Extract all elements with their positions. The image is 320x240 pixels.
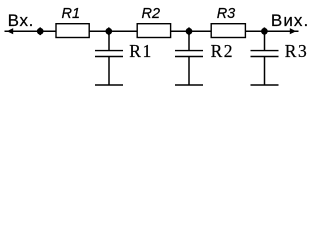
- resistor R1 (series box): [56, 24, 89, 38]
- svg-text:R2: R2: [142, 6, 161, 22]
- svg-text:Вих.: Вих.: [271, 11, 309, 30]
- terminal bar branch 1: [95, 84, 123, 86]
- svg-text:R1: R1: [129, 41, 152, 61]
- terminal bar branch 3: [251, 84, 279, 86]
- wire input segment: [5, 30, 56, 32]
- node B (junction dot 2): [105, 28, 112, 35]
- svg-text:R2: R2: [211, 41, 234, 61]
- wire capacitor branch 3 bottom: [264, 57, 266, 86]
- svg-text:R1: R1: [62, 6, 81, 22]
- capacitor R3 bottom plate: [251, 56, 279, 58]
- wire capacitor branch 1 top: [108, 31, 110, 51]
- capacitor R2 top plate: [175, 50, 203, 52]
- capacitor R1 top plate: [95, 50, 123, 52]
- resistor R2 (series box): [137, 24, 170, 38]
- svg-text:R3: R3: [285, 41, 308, 61]
- svg-text:Вх.: Вх.: [8, 11, 34, 30]
- wire R2 to node C: [171, 30, 211, 32]
- node C (junction dot 3): [186, 28, 193, 35]
- wire capacitor branch 1 bottom: [108, 57, 110, 86]
- resistor R3 (series box): [211, 24, 245, 38]
- wire R3 to output: [245, 30, 298, 32]
- wire R1 to node B: [89, 30, 137, 32]
- wire capacitor branch 3 top: [264, 31, 266, 51]
- capacitor R1 bottom plate: [95, 56, 123, 58]
- wire capacitor branch 2 top: [188, 31, 190, 51]
- terminal bar branch 2: [175, 84, 203, 86]
- wire capacitor branch 2 bottom: [188, 57, 190, 86]
- node A (junction dot at input): [37, 28, 44, 35]
- node D (junction dot 4): [261, 28, 268, 35]
- input arrow (points left): [7, 28, 13, 34]
- svg-text:R3: R3: [217, 6, 236, 22]
- capacitor R3 top plate: [251, 50, 279, 52]
- capacitor R2 bottom plate: [175, 56, 203, 58]
- output arrow (points right): [290, 28, 296, 34]
